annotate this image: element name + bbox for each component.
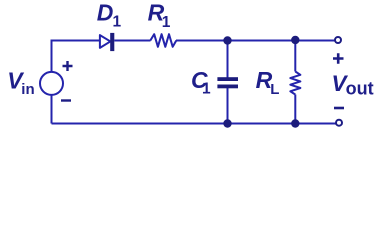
output minus sign xyxy=(334,107,344,110)
resistor RL zigzag xyxy=(290,72,300,95)
svg-text:in: in xyxy=(21,81,34,98)
wire RL top stub xyxy=(294,41,296,72)
junction dot C1 bottom xyxy=(223,119,231,127)
output plus sign xyxy=(333,53,344,64)
source minus sign xyxy=(61,99,71,101)
svg-text:1: 1 xyxy=(162,14,171,31)
junction dot RL bottom xyxy=(291,119,299,127)
svg-text:1: 1 xyxy=(202,81,211,98)
voltage source Vin xyxy=(40,72,63,95)
svg-text:L: L xyxy=(270,81,279,98)
wire R1 to output terminal xyxy=(176,40,335,42)
wire C1 top stub xyxy=(227,41,229,78)
capacitor C1 top plate xyxy=(217,77,238,81)
svg-text:out: out xyxy=(346,78,374,98)
wire RL bottom stub xyxy=(294,95,296,124)
output terminal bottom xyxy=(336,120,342,126)
diode D1 triangle xyxy=(100,35,111,48)
junction dot RL top xyxy=(291,36,299,44)
svg-text:1: 1 xyxy=(113,14,122,31)
resistor R1 zigzag xyxy=(150,34,176,47)
output terminal top xyxy=(335,37,341,43)
source plus sign xyxy=(63,61,73,71)
diode D1 cathode bar xyxy=(110,33,114,51)
capacitor C1 bottom plate xyxy=(217,85,238,89)
wire bottom rail xyxy=(52,123,336,125)
junction dot C1 top xyxy=(223,36,231,44)
svg-text:D: D xyxy=(97,0,114,26)
wire source bottom xyxy=(51,95,53,124)
wire diode to R1 xyxy=(114,40,150,42)
wire C1 bottom stub xyxy=(227,88,229,124)
wire top rail xyxy=(52,41,101,73)
